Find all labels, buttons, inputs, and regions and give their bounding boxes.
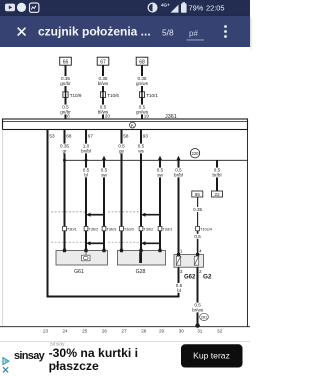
right frame line bbox=[247, 130, 249, 327]
shield dashed boundary lower (G61) bbox=[51, 241, 85, 243]
svg-text:gr: gr bbox=[62, 148, 67, 153]
svg-text:29: 29 bbox=[159, 329, 165, 334]
svg-text:281: 281 bbox=[201, 315, 208, 320]
continuation box 22 bbox=[212, 191, 223, 198]
wire 3 gauge/colour label bbox=[135, 76, 148, 86]
chat head circle icon bbox=[17, 3, 26, 12]
wire pin58 0.5 ge down to T3d/3 and G28 bbox=[121, 130, 123, 252]
wire 2 lower segment 0.5 bl/ws bbox=[102, 97, 104, 119]
control unit J361 band bbox=[3, 119, 248, 130]
svg-text:bl: bl bbox=[177, 288, 181, 293]
junction dot at bn/bl wire bbox=[85, 159, 88, 162]
current track numbers bbox=[43, 329, 223, 334]
svg-text:28: 28 bbox=[141, 329, 147, 334]
svg-text:32: 32 bbox=[217, 329, 223, 334]
wire 0.35 from continuation 65 bbox=[197, 197, 199, 226]
shield drain bar lower (G61) bbox=[86, 241, 104, 245]
svg-text:27: 27 bbox=[122, 329, 128, 334]
stub wire from rail to continuation 22 bbox=[216, 160, 218, 191]
wire 2 gauge/colour label bbox=[96, 76, 109, 86]
signal triangle bbox=[171, 5, 179, 13]
svg-text:4G+: 4G+ bbox=[161, 2, 170, 7]
wire 0.5 bl from G2 pin 3 label bbox=[175, 283, 183, 293]
svg-text:68: 68 bbox=[66, 133, 72, 138]
wire 2 upper segment 0.35 bl/ws bbox=[102, 65, 104, 92]
svg-text:-30% na kurtki i: -30% na kurtki i bbox=[49, 346, 138, 360]
CTA button bbox=[181, 344, 243, 367]
wire gauge labels row below rail bbox=[82, 168, 224, 178]
rail connection arrow (sw right wire) bbox=[158, 156, 162, 161]
adchoices triangle icon bbox=[3, 358, 9, 365]
svg-text:22:05: 22:05 bbox=[206, 4, 225, 13]
svg-text:gn/br: gn/br bbox=[60, 81, 71, 86]
wire 1 lower segment 0.5 gn/br bbox=[65, 97, 67, 119]
connector T10/1 bbox=[139, 92, 158, 98]
rail connection arrow (br/bl wire) bbox=[176, 156, 180, 161]
svg-text:53: 53 bbox=[49, 133, 55, 138]
left frame line bbox=[1, 130, 3, 327]
shield drain bar upper (G28) bbox=[141, 213, 160, 217]
connector T3b/2 bbox=[84, 226, 98, 231]
connector T3b/1 bbox=[63, 226, 77, 231]
wire pin67 1.0 bn/bl down to ground rail then 0.5 bl to T3b/2 and G61 bbox=[85, 130, 87, 252]
svg-text:67: 67 bbox=[100, 60, 106, 66]
svg-text:ws: ws bbox=[138, 148, 144, 153]
battery icon bbox=[183, 2, 186, 3]
svg-text:31: 31 bbox=[197, 329, 203, 334]
bottom earth rail bbox=[0, 326, 250, 328]
close X icon bbox=[18, 28, 25, 35]
svg-text:79%: 79% bbox=[189, 4, 204, 13]
svg-text:T3d/1: T3d/1 bbox=[162, 227, 172, 232]
svg-text:T10/1: T10/1 bbox=[146, 93, 158, 98]
wire 1 upper segment 0.35 gn/br bbox=[65, 65, 67, 92]
wire 0.5 sw from ground rail to T3d/1 and G28 bbox=[159, 160, 161, 251]
continuation box 68 (wire 3) bbox=[136, 57, 148, 65]
youtube notification icon bbox=[5, 4, 15, 12]
wire 0.5 br/ws from G2 pin 2 to ground bbox=[197, 267, 199, 327]
svg-text:bn/bl: bn/bl bbox=[81, 148, 91, 153]
connector T10/6 bbox=[100, 92, 119, 98]
svg-text:T3b/3: T3b/3 bbox=[106, 227, 116, 232]
wire 2 lower gauge/colour label bbox=[96, 105, 109, 115]
continuation box 66 (wire 1) bbox=[60, 57, 72, 65]
svg-text:sw: sw bbox=[157, 172, 163, 177]
svg-text:sinsay: sinsay bbox=[14, 350, 46, 362]
svg-text:bl/ws: bl/ws bbox=[98, 81, 109, 86]
wire gauge labels row above rail bbox=[59, 144, 145, 154]
status bar bbox=[0, 0, 250, 16]
svg-text:58: 58 bbox=[123, 133, 129, 138]
svg-text:T3b/2: T3b/2 bbox=[88, 227, 98, 232]
connector T10c/4 bbox=[196, 226, 213, 231]
svg-text:66: 66 bbox=[63, 60, 69, 66]
shield drain bar upper (G61) bbox=[86, 213, 104, 217]
connector T3d/2 bbox=[139, 226, 153, 231]
0.5 br/ws label bbox=[191, 303, 204, 313]
wire 3 lower segment 0.5 gn/ws bbox=[141, 97, 143, 119]
pins 53 68 67 58 93 of J361 (bottom) bbox=[49, 133, 148, 138]
wire 3 lower gauge/colour label bbox=[135, 105, 148, 115]
wire 0.5 to G2 pin 4 bbox=[197, 231, 199, 255]
svg-text:G61: G61 bbox=[74, 269, 84, 275]
svg-text:gn/ws: gn/ws bbox=[136, 81, 149, 86]
svg-text:5/8: 5/8 bbox=[162, 28, 174, 38]
svg-text:3: 3 bbox=[180, 269, 183, 274]
schematic page bbox=[0, 47, 250, 341]
shield drain bar lower (G28) bbox=[141, 241, 160, 245]
svg-text:T3d/2: T3d/2 bbox=[143, 227, 153, 232]
svg-text:220: 220 bbox=[192, 151, 200, 156]
svg-text:2: 2 bbox=[199, 269, 202, 274]
wire 3 upper segment 0.35 gn/ws bbox=[141, 65, 143, 92]
shield dashed boundary lower (G28) bbox=[108, 241, 140, 243]
wire pin93 0.5 ws down to T3d/2 and G28 bbox=[140, 130, 142, 252]
activity/chart notification icon bbox=[30, 3, 39, 12]
wire 0.5 br/bl from ground rail to G2 pin 1 bbox=[178, 160, 180, 255]
svg-text:T10/6: T10/6 bbox=[107, 93, 119, 98]
svg-text:23: 23 bbox=[43, 329, 49, 334]
svg-text:4: 4 bbox=[199, 248, 202, 253]
svg-text:93: 93 bbox=[143, 133, 149, 138]
wire from pin 53 down and across to G2 pin 3 bbox=[48, 130, 179, 297]
wire 1 lower gauge/colour label bbox=[59, 105, 72, 115]
shield dashed boundary upper (G28) bbox=[108, 211, 140, 213]
ad banner bbox=[0, 341, 250, 376]
wire 1 gauge/colour label bbox=[59, 76, 72, 86]
connector T3d/1 bbox=[158, 226, 172, 231]
engine speed sensor G28 box bbox=[118, 249, 166, 265]
ad close X icon bbox=[3, 367, 8, 372]
app toolbar bbox=[0, 16, 250, 47]
svg-text:25: 25 bbox=[82, 329, 88, 334]
continuation box 65 bbox=[192, 191, 203, 198]
continuation box 67 (wire 2) bbox=[97, 57, 109, 65]
svg-text:67: 67 bbox=[88, 133, 94, 138]
svg-text:ge: ge bbox=[119, 148, 125, 153]
svg-text:płaszcze: płaszcze bbox=[49, 359, 99, 373]
rail connection arrow (sw left wire) bbox=[102, 156, 106, 161]
svg-text:br/bl: br/bl bbox=[213, 172, 222, 177]
svg-text:24: 24 bbox=[62, 329, 68, 334]
coolant temp sensor G62/G2 box bbox=[174, 253, 204, 267]
svg-text:T10/9: T10/9 bbox=[70, 93, 82, 98]
shield dashed boundary upper (G61) bbox=[51, 211, 85, 213]
0.35 gauge label bbox=[192, 207, 203, 212]
svg-text:22: 22 bbox=[214, 192, 220, 198]
svg-text:1: 1 bbox=[180, 248, 183, 253]
ground point 281 bbox=[200, 313, 209, 320]
ground point 220 bbox=[190, 149, 199, 158]
wire 0.5 sw from ground rail to T3b/3 and G61 bbox=[103, 160, 105, 251]
svg-text:0.35: 0.35 bbox=[193, 207, 202, 212]
svg-text:20: 20 bbox=[105, 114, 111, 119]
wire pin68 0.35 gr down to T3b/1 and G61 bbox=[64, 130, 66, 252]
ground junction dot bbox=[195, 323, 199, 327]
junction dot at gr wire bbox=[63, 159, 66, 162]
svg-text:sw: sw bbox=[101, 172, 107, 177]
svg-text:T10c/4: T10c/4 bbox=[200, 227, 213, 232]
overflow menu dots bbox=[224, 25, 227, 28]
data saver circle icon bbox=[148, 3, 157, 12]
svg-text:0.5: 0.5 bbox=[194, 234, 201, 239]
connector T3b/3 bbox=[102, 226, 116, 231]
svg-text:6: 6 bbox=[67, 114, 70, 119]
svg-text:K: K bbox=[131, 123, 134, 128]
ground rail wire bbox=[65, 159, 248, 161]
svg-text:czujnik położenia ...: czujnik położenia ... bbox=[38, 25, 151, 39]
svg-text:Kup teraz: Kup teraz bbox=[193, 351, 230, 361]
0.5 gauge label bbox=[193, 234, 201, 239]
connector T10/9 bbox=[63, 92, 82, 98]
knock sensor G61 box bbox=[56, 249, 108, 265]
svg-text:30: 30 bbox=[179, 329, 185, 334]
svg-text:G2: G2 bbox=[203, 274, 212, 281]
connector T3d/3 bbox=[120, 226, 134, 231]
svg-text:26: 26 bbox=[102, 329, 108, 334]
svg-text:p#: p# bbox=[189, 29, 198, 38]
svg-text:T3d/3: T3d/3 bbox=[124, 227, 134, 232]
internal connection K bbox=[130, 122, 136, 128]
svg-text:bl: bl bbox=[84, 172, 88, 177]
svg-text:19: 19 bbox=[144, 114, 150, 119]
svg-text:G62: G62 bbox=[184, 275, 196, 281]
svg-text:68: 68 bbox=[139, 60, 145, 66]
svg-text:T3b/1: T3b/1 bbox=[67, 227, 77, 232]
svg-text:br/ws: br/ws bbox=[192, 307, 204, 312]
svg-text:G28: G28 bbox=[136, 269, 146, 275]
svg-text:br/bl: br/bl bbox=[174, 172, 183, 177]
